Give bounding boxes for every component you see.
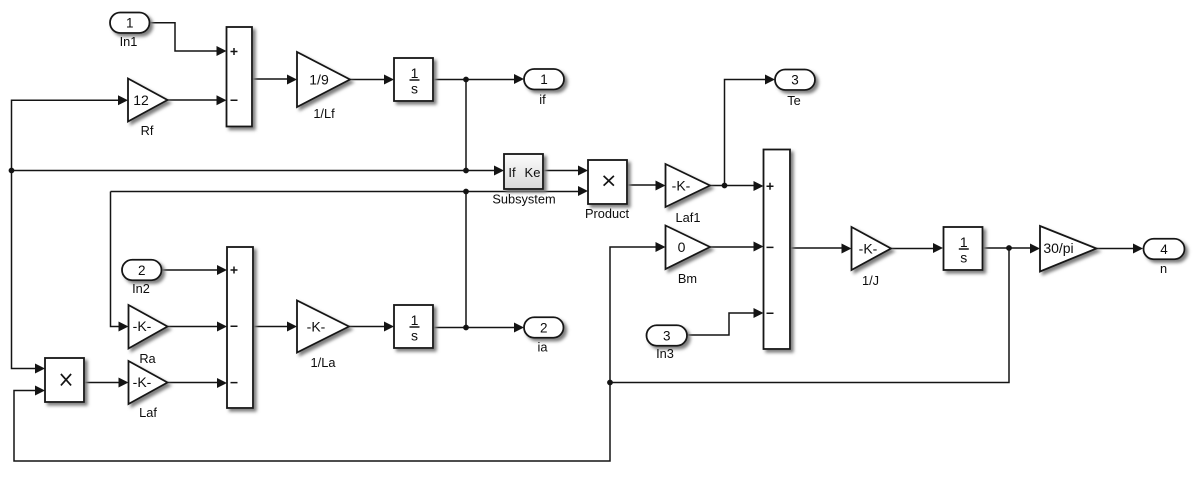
- wire In3 to Sum3 input3: [687, 308, 764, 335]
- wire 1/La to Int2: [349, 322, 394, 332]
- gain Bm: [666, 226, 711, 287]
- wire In1 to Sum1 + input: [150, 23, 227, 56]
- product Product: [585, 160, 630, 221]
- svg-text:2: 2: [540, 320, 548, 335]
- inport In2: [122, 260, 162, 296]
- svg-text:-K-: -K-: [307, 319, 326, 335]
- svg-text:ia: ia: [538, 340, 549, 355]
- outport ia: [524, 317, 564, 354]
- svg-text:-K-: -K-: [672, 178, 691, 194]
- sum block Sum1: [227, 27, 253, 127]
- svg-text:3: 3: [663, 328, 671, 343]
- gain 1/J: [852, 227, 892, 288]
- wire Mult2 to Laf: [85, 378, 129, 388]
- outport if: [524, 69, 564, 107]
- svg-text:1: 1: [126, 16, 134, 31]
- inport In3: [647, 325, 688, 361]
- gain 1/La: [297, 301, 349, 371]
- sum block Sum3: [764, 150, 791, 350]
- wire Laf1 to Sum3 + input, junction: [710, 181, 764, 191]
- svg-text:Ra: Ra: [139, 351, 156, 366]
- sum block Sum2: [227, 247, 253, 408]
- wire 30/pi to out port n: [1095, 244, 1143, 254]
- svg-text:Laf: Laf: [139, 405, 157, 420]
- wire if line to Subsystem: [12, 166, 505, 176]
- wire Rf to Sum1 - input: [168, 95, 227, 105]
- wire Product to Laf1: [627, 181, 666, 191]
- integrator Int2: [394, 305, 433, 348]
- gain Rf: [128, 79, 168, 139]
- svg-text:In2: In2: [132, 281, 150, 296]
- svg-text:Laf1: Laf1: [676, 210, 701, 225]
- svg-text:Rf: Rf: [141, 123, 154, 138]
- svg-text:Te: Te: [787, 93, 801, 108]
- svg-text:0: 0: [678, 239, 686, 255]
- wire Ra to Sum2 input2: [168, 322, 227, 332]
- svg-text:3: 3: [791, 73, 799, 88]
- svg-text:Bm: Bm: [678, 271, 697, 286]
- wire vertical ia branch x466: [465, 192, 467, 328]
- svg-text:n: n: [1160, 261, 1167, 276]
- svg-text:1/9: 1/9: [309, 72, 329, 88]
- wire vertical if branch down: [465, 80, 467, 171]
- svg-text:12: 12: [133, 92, 149, 108]
- gain 1/Lf: [297, 52, 350, 121]
- svg-text:In1: In1: [120, 34, 138, 49]
- svg-text:1/J: 1/J: [862, 273, 879, 288]
- wire Int1 to out port if, junction: [433, 74, 524, 84]
- svg-text:Product: Product: [585, 206, 630, 221]
- integrator Int1: [394, 58, 433, 101]
- inport In1: [110, 13, 150, 50]
- svg-text:Ke: Ke: [525, 165, 541, 180]
- wire Te branch up: [725, 75, 776, 186]
- svg-text:4: 4: [1160, 242, 1168, 257]
- outport n: [1144, 239, 1185, 276]
- subsystem If Ke: [492, 154, 555, 207]
- wire Bm to Sum3 input2: [710, 242, 764, 252]
- svg-text:if: if: [539, 92, 546, 107]
- wire omega feedback from Int3 junction down and left: [607, 248, 1009, 385]
- svg-text:2: 2: [138, 263, 146, 278]
- svg-text:s: s: [960, 250, 967, 266]
- gain Laf: [129, 361, 168, 420]
- svg-text:If: If: [508, 165, 516, 180]
- wire Laf to Sum2 input3: [168, 378, 227, 388]
- wire ia branch down to Ra: [111, 192, 129, 332]
- wire omega to Bm: [610, 242, 666, 383]
- wire Int3 to 30/pi, junction: [983, 244, 1040, 254]
- gain 30/pi: [1040, 226, 1097, 272]
- wire Sum2 to 1/La: [253, 322, 297, 332]
- svg-text:1: 1: [540, 72, 548, 87]
- svg-text:s: s: [411, 328, 418, 344]
- svg-text:-K-: -K-: [133, 318, 152, 334]
- svg-text:1: 1: [411, 65, 419, 81]
- svg-text:1: 1: [411, 312, 419, 328]
- wire Sum3 to 1/J: [790, 244, 852, 254]
- wire 1/Lf to Int1: [350, 75, 394, 85]
- wire Subsystem to Product input1: [543, 166, 588, 176]
- outport Te: [775, 70, 815, 109]
- svg-text:s: s: [411, 81, 418, 97]
- svg-text:30/pi: 30/pi: [1043, 240, 1073, 256]
- wire if feedback vertical trunk to Rf and Mult2: [9, 95, 128, 373]
- svg-text:-K-: -K-: [859, 241, 878, 257]
- wire In2 to Sum2 + input: [161, 265, 227, 275]
- wire ia line to Product input2: [111, 186, 589, 196]
- svg-text:-K-: -K-: [133, 374, 152, 390]
- svg-text:1/La: 1/La: [311, 355, 337, 370]
- gain Laf1: [666, 164, 711, 225]
- wire omega feedback bottom loop to Mult2 input2: [14, 383, 610, 462]
- gain Ra: [129, 305, 168, 366]
- svg-text:In3: In3: [656, 346, 674, 361]
- integrator Int3: [944, 227, 983, 270]
- svg-text:Subsystem: Subsystem: [492, 192, 555, 207]
- svg-text:1/Lf: 1/Lf: [313, 106, 335, 121]
- product Mult2: [45, 358, 84, 402]
- wire 1/J to Int3: [891, 243, 943, 253]
- svg-text:1: 1: [960, 234, 968, 250]
- wire Int2 to out port ia, junction: [433, 323, 524, 333]
- wire Sum1 to 1/Lf: [252, 75, 297, 85]
